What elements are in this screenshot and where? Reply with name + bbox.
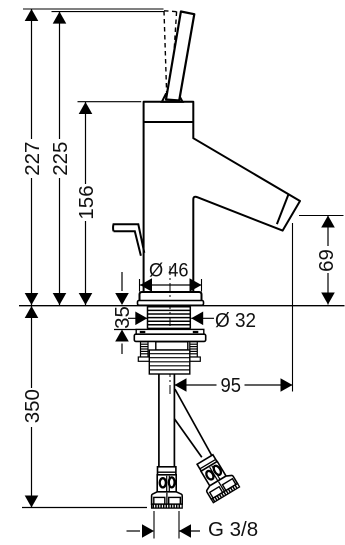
svg-text:35: 35 — [111, 306, 134, 329]
dimension G 3/8 — [127, 511, 259, 541]
handle base flare — [162, 94, 183, 102]
supply hose nuts block — [149, 350, 190, 374]
dimension diameter 46 — [140, 260, 202, 292]
dimension 156 — [75, 102, 98, 305]
dimension 35 — [111, 272, 136, 354]
angled hose fitting — [192, 452, 240, 503]
dimension 350 — [21, 306, 147, 508]
countertop line — [19, 305, 345, 307]
dimension 225 — [49, 12, 72, 305]
handle dashed outline (vertical position) — [164, 11, 177, 98]
faucet body outline — [144, 102, 300, 292]
dimension 95 — [175, 223, 293, 397]
svg-text:Ø 32: Ø 32 — [215, 309, 256, 332]
mounting nut body — [134, 334, 205, 341]
svg-text:156: 156 — [75, 185, 98, 219]
dimension diameter 32 — [128, 309, 256, 332]
svg-text:225: 225 — [49, 142, 72, 176]
svg-text:350: 350 — [21, 389, 44, 423]
dimension 69 — [299, 216, 344, 305]
svg-text:Ø 46: Ø 46 — [149, 260, 189, 282]
left mounting stud — [138, 342, 150, 362]
supply connection neck — [156, 342, 188, 350]
threaded shank — [148, 306, 191, 328]
base escutcheon — [140, 292, 202, 301]
vertical hose — [159, 375, 175, 468]
dimension 227 — [21, 9, 44, 305]
handle lever (tilted) — [166, 12, 194, 101]
dimension 156 extension line — [78, 101, 142, 103]
dimension 225 extension line (top) — [52, 11, 164, 13]
pop-up rod lever — [113, 224, 144, 256]
svg-text:G 3/8: G 3/8 — [208, 518, 258, 541]
vertical hose fitting — [152, 467, 183, 508]
svg-text:95: 95 — [221, 374, 242, 397]
centerline (dash-dot) — [169, 266, 171, 394]
base flange — [138, 301, 204, 306]
svg-text:227: 227 — [21, 142, 44, 176]
right mounting stud — [189, 342, 201, 362]
dimension 227 extension line (top) — [23, 8, 164, 10]
angled hose — [174, 389, 212, 457]
svg-text:69: 69 — [315, 249, 338, 272]
mounting nut flange — [136, 329, 204, 334]
